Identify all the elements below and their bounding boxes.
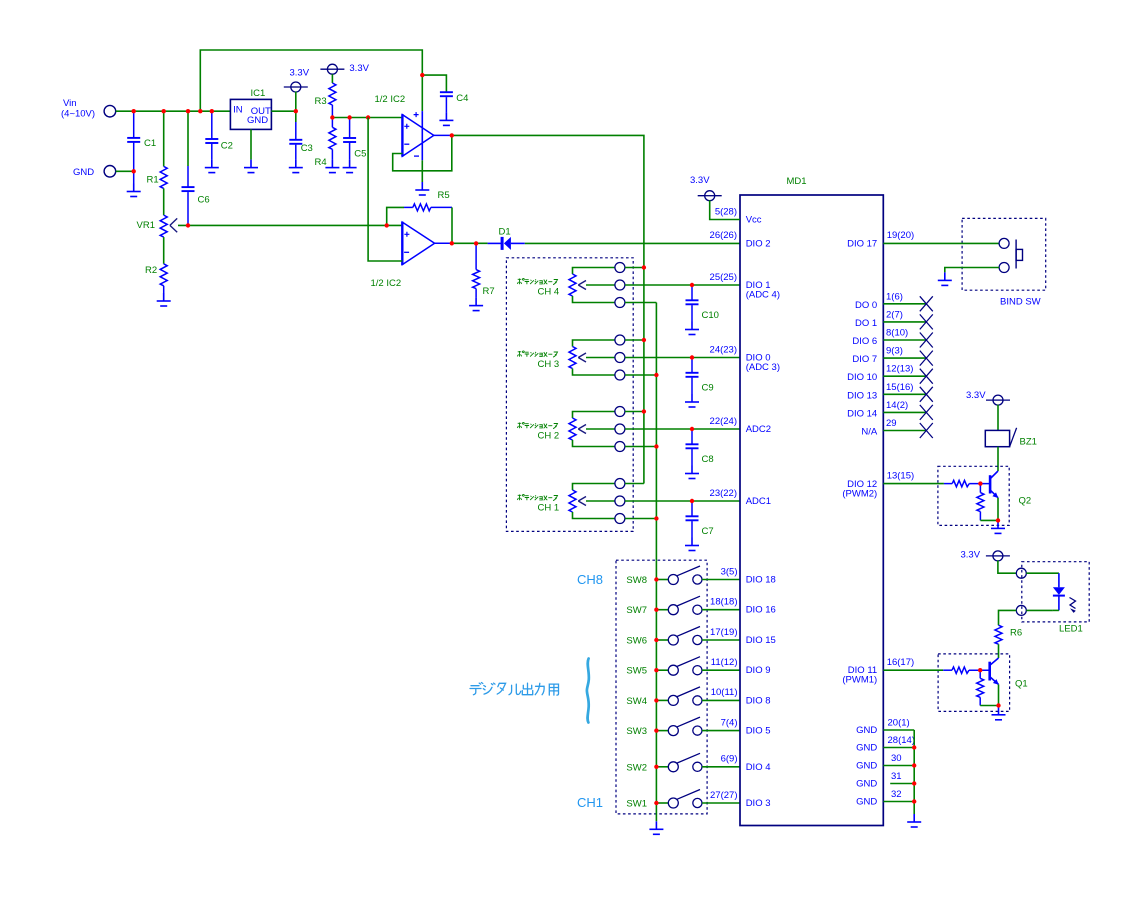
svg-text:(PWM2): (PWM2) [842,489,877,500]
wire LED1 cathode [1026,609,1053,611]
pin GND 31 [856,771,914,790]
wire VR1 to R2 [163,237,165,264]
wire VR1 wiper to op-amp [178,224,402,226]
wire Vcc pin [710,200,740,219]
svg-text:GND: GND [247,115,268,126]
buzzer BZ1 [985,430,1009,446]
pin 14(2) DIO 14 no-connect [847,400,933,420]
LED1 emission arrow [1070,598,1076,609]
ground below R7 [469,298,483,311]
svg-text:Vcc: Vcc [746,215,762,226]
ground below Q2 [997,519,999,522]
resistor R7 [475,243,477,269]
svg-text:DIO 16: DIO 16 [746,605,776,616]
svg-text:R2: R2 [145,265,157,276]
svg-text:CH1: CH1 [577,795,603,810]
power symbol 3.3V at MD1 Vcc [698,191,722,201]
svg-text:Q2: Q2 [1019,496,1032,507]
capacitor C8 [685,429,714,479]
svg-text:IN: IN [233,104,243,115]
pin 27(27) DIO 3 [710,790,770,809]
svg-text:LED1: LED1 [1059,624,1083,635]
Q1 dashed box [938,654,1010,712]
svg-text:CH 3: CH 3 [538,359,560,370]
wire divider node to op-amp2 inverting input [368,118,402,262]
svg-text:BIND SW: BIND SW [1000,297,1041,308]
capacitor C4 [440,92,453,97]
ground below IC1 [244,160,258,173]
svg-text:SW1: SW1 [626,799,647,810]
wire GND terminal to C1 [116,170,134,172]
switch SW3 [626,717,740,737]
svg-text:15(16): 15(16) [886,382,913,393]
pin 2(7) DO 1 no-connect [855,309,933,329]
svg-text:C5: C5 [354,148,366,159]
svg-text:1/2 IC2: 1/2 IC2 [371,278,402,289]
LED1 dashed box [1022,562,1089,622]
LED LED1 [1058,573,1060,587]
svg-text:DIO 13: DIO 13 [847,390,877,401]
svg-text:CH 4: CH 4 [538,287,560,298]
svg-text:DIO 4: DIO 4 [746,762,771,773]
potentiometer CH3 [517,335,740,380]
op-amp U2B (1/2 IC2 bottom) [402,222,452,265]
svg-text:C4: C4 [456,93,468,104]
resistor R6 [995,625,1002,644]
potentiometer VR1 [160,215,167,237]
capacitor C3 [295,111,297,122]
capacitor C2 [211,111,213,139]
svg-text:(PWM1): (PWM1) [842,675,877,686]
ground below C1 [133,171,135,183]
svg-text:DO 1: DO 1 [855,318,877,329]
switch SW6 [626,627,740,647]
potentiometer CH1 [517,479,740,524]
svg-text:1(6): 1(6) [886,291,903,302]
switch SW5 [626,657,740,677]
pin GND 20(1) [856,717,914,736]
svg-text:3.3V: 3.3V [290,68,310,79]
wire op-amp2 feedback left [387,207,404,225]
svg-text:9(3): 9(3) [886,346,903,357]
svg-text:DIO 17: DIO 17 [847,239,877,250]
wire ground bus from CH4 bottom [655,303,657,561]
svg-text:29: 29 [886,418,897,429]
wire R6 to Q1 collector [998,644,1000,658]
svg-text:GND: GND [856,743,877,754]
switch SW8 [626,566,740,586]
pin 13(15) DIO 12 PWM2 [842,470,914,499]
svg-text:DIO 15: DIO 15 [746,635,776,646]
resistor Q1 pulldown [979,670,981,678]
transistor Q1 [990,658,999,684]
svg-text:3(5): 3(5) [721,566,738,577]
wire LED1 anode [1026,572,1059,574]
switch SW1 [626,790,740,810]
svg-text:ADC1: ADC1 [746,496,771,507]
svg-text:R3: R3 [315,96,327,107]
wire BZ1 to Q2 collector [997,447,999,471]
svg-text:GND: GND [856,797,877,808]
svg-text:DIO 2: DIO 2 [746,238,771,249]
power symbol 3.3V at IC1 OUT [284,82,308,92]
svg-text:(4~10V): (4~10V) [61,108,95,119]
ground below BIND SW [938,272,952,285]
svg-text:(ADC 4): (ADC 4) [746,290,780,301]
pin GND 32 [856,789,914,808]
svg-text:C3: C3 [301,143,313,154]
label digital output (hand-drawn kanji) [470,683,559,696]
svg-text:Vin: Vin [63,98,77,109]
svg-text:ADC2: ADC2 [746,424,771,435]
svg-text:5(28): 5(28) [715,206,737,217]
svg-text:24(23): 24(23) [710,344,737,355]
wire DIO 11 to Q1 base resistor [883,669,943,671]
ground below C2 [205,160,219,173]
svg-text:N/A: N/A [861,427,878,438]
svg-text:19(20): 19(20) [887,230,914,241]
svg-text:32: 32 [891,789,902,800]
ground below C3 [289,160,303,173]
svg-text:16(17): 16(17) [887,657,914,668]
svg-text:C2: C2 [221,141,233,152]
resistor Q1 base [943,669,952,671]
pin 6(9) DIO 4 [721,754,771,773]
ground below C4 [439,112,453,125]
wire DIO 17 to BIND SW [883,242,999,244]
wire 3.3V to BZ1 [997,405,999,431]
svg-text:14(2): 14(2) [886,400,908,411]
svg-text:SW3: SW3 [626,726,647,737]
svg-text:6(9): 6(9) [721,754,738,765]
pin 25(25) DIO 1 [710,272,780,301]
svg-text:DIO 7: DIO 7 [852,354,877,365]
svg-text:10(11): 10(11) [711,687,738,698]
svg-text:DIO 6: DIO 6 [852,336,877,347]
pin 5(28) Vcc [715,206,762,225]
svg-text:C8: C8 [702,454,714,465]
svg-text:Q1: Q1 [1015,679,1028,690]
pin 15(16) DIO 13 no-connect [847,382,933,402]
svg-text:CH8: CH8 [577,572,603,587]
pin 9(3) DIO 7 no-connect [852,346,932,366]
diode D1 [488,242,501,244]
pin 19(20) DIO 17 [847,230,914,249]
svg-text:DIO 10: DIO 10 [847,372,877,383]
pin 24(23) DIO 0 [710,344,780,373]
ground below Q1 [998,706,1000,707]
wire D1 to MD1 DIO2 [525,242,740,244]
svg-text:3.3V: 3.3V [961,550,981,561]
pin 11(12) DIO 9 [711,657,771,676]
node Vin terminal [104,105,116,117]
svg-text:SW6: SW6 [626,636,647,647]
svg-text:VR1: VR1 [137,220,155,231]
svg-text:R4: R4 [315,157,327,168]
svg-text:SW4: SW4 [626,696,647,707]
switch SW7 [626,596,740,616]
pin 23(22) ADC1 [710,488,772,507]
ground below GND chain [907,814,921,827]
junction dots Q2 [978,481,1000,522]
svg-text:28(14): 28(14) [888,735,915,746]
svg-text:22(24): 22(24) [710,416,737,427]
wire op-amp1 power to ground [421,160,423,182]
node GND terminal [104,166,116,178]
svg-text:17(19): 17(19) [710,627,737,638]
svg-text:DIO 5: DIO 5 [746,726,771,737]
wire op-amp2 output [452,242,488,244]
svg-text:R5: R5 [438,190,450,201]
svg-text:C7: C7 [702,526,714,537]
transistor Q2 [990,471,998,498]
svg-text:26(26): 26(26) [710,230,737,241]
capacitor C7 [685,501,714,551]
switch block dashed box [616,560,707,814]
resistor R3 [329,83,336,105]
regulator IC1 [230,99,271,129]
pin GND 28(14) [856,735,915,754]
svg-text:GND: GND [856,725,877,736]
svg-text:DO 0: DO 0 [855,300,877,311]
svg-text:3.3V: 3.3V [690,175,710,186]
wire Q2 emitter down [997,498,999,521]
wire switch ground bus [655,560,657,821]
wire Q1 emitter down [998,684,1000,705]
potentiometer CH2 [517,407,740,452]
svg-text:11(12): 11(12) [711,657,738,668]
wire Q1 pulldown to emitter [980,705,998,707]
LED1 terminal 1 [1016,568,1026,578]
svg-text:C9: C9 [702,383,714,394]
wire IC1 OUT [271,110,295,112]
pin 12(13) DIO 10 no-connect [847,364,933,384]
resistor Q2 base [944,483,952,485]
pin 29 N/A no-connect [861,418,932,438]
switch SW4 [626,687,740,707]
svg-text:2(7): 2(7) [886,309,903,320]
wire op-amp1 output to pot bus [452,135,644,267]
wire op-amp2 feedback right [451,207,453,243]
svg-text:SW2: SW2 [626,762,647,773]
svg-text:IC1: IC1 [251,88,266,99]
capacitor C6 [187,111,189,166]
junction dots op-amp section [385,73,479,246]
wire Vin rail [116,110,231,112]
svg-text:C10: C10 [702,310,719,321]
ground below switch bus [649,821,663,834]
op-amp U2A (1/2 IC2 top) [402,111,451,160]
svg-text:25(25): 25(25) [710,272,737,283]
resistor R1 [163,111,165,166]
svg-text:23(22): 23(22) [710,488,737,499]
pin 26(26) DIO 2 [710,230,771,249]
wire R1 to VR1 [163,188,165,215]
resistor R2 [160,264,167,286]
potentiometer block dashed box [506,258,633,532]
svg-text:D1: D1 [499,227,511,238]
capacitor C9 [685,358,714,408]
svg-text:R7: R7 [483,286,495,297]
wire op-amp1 feedback [393,135,452,170]
wire GND chain vertical [913,730,915,814]
capacitor C5 [349,118,351,139]
switch BIND SW pushbutton symbol [1016,240,1022,269]
wire DIO 12 to Q2 base resistor [883,483,944,485]
svg-text:C1: C1 [144,138,156,149]
wire LED1 terminal2 to R6 [999,610,1017,625]
svg-text:DIO 14: DIO 14 [847,408,877,419]
junction dots Q1 [978,668,1001,708]
svg-text:CH 1: CH 1 [538,503,560,514]
pin 18(18) DIO 16 [710,597,776,616]
junction dots pot section [642,265,695,520]
wire BIND SW to ground [945,268,999,273]
svg-text:DIO 18: DIO 18 [746,575,776,586]
svg-text:DIO 9: DIO 9 [746,665,771,676]
svg-text:MD1: MD1 [787,176,807,187]
svg-text:27(27): 27(27) [710,790,737,801]
switch SW2 [626,753,740,773]
svg-text:3.3V: 3.3V [349,63,369,74]
svg-text:7(4): 7(4) [721,717,738,728]
svg-text:12(13): 12(13) [886,364,913,375]
svg-text:13(15): 13(15) [887,470,914,481]
svg-text:SW7: SW7 [626,605,647,616]
pin 16(17) DIO 11 PWM1 [842,657,914,686]
svg-text:SW5: SW5 [626,666,647,677]
ground below R4 [325,160,339,173]
resistor R4 [331,118,333,128]
wire Q2 pulldown to emitter [980,519,998,521]
ground below C5 [343,160,357,173]
svg-text:CH 2: CH 2 [538,431,560,442]
svg-text:GND: GND [856,779,877,790]
wire top power loop [200,50,422,111]
wire 3.3V rail branch to C4 [422,75,446,92]
junction dots GND chain [912,745,916,803]
svg-text:(ADC 3): (ADC 3) [746,362,780,373]
brace annotation [587,659,589,723]
node bus A (pot top feed) [643,268,645,484]
pin 7(4) DIO 5 [721,717,771,736]
resistor R5 [404,206,413,208]
svg-text:GND: GND [73,167,94,178]
svg-text:18(18): 18(18) [710,597,737,608]
pin 17(19) DIO 15 [710,627,776,646]
power symbol 3.3V at BZ1 [986,395,1010,405]
pin 1(6) DO 0 no-connect [855,291,933,311]
ground below R2 [163,286,165,301]
ground below op-amp1 [415,182,429,195]
resistor Q2 pulldown [979,484,981,493]
wire IC1 GND pin [250,129,252,159]
svg-text:DIO 3: DIO 3 [746,798,771,809]
svg-text:R6: R6 [1010,628,1022,639]
wire divider node [332,117,402,119]
LED1 terminal 2 [1016,605,1026,615]
svg-text:20(1): 20(1) [888,717,910,728]
pin 22(24) ADC2 [710,416,772,435]
potentiometer CH4 [517,263,740,308]
svg-text:SW8: SW8 [626,575,647,586]
power symbol 3.3V at R3 [320,64,344,74]
capacitor C1 [133,111,135,138]
svg-text:8(10): 8(10) [886,328,908,339]
svg-text:BZ1: BZ1 [1020,437,1037,448]
BIND SW dashed box [962,218,1046,290]
svg-text:30: 30 [891,753,902,764]
svg-text:31: 31 [891,771,902,782]
svg-text:3.3V: 3.3V [966,390,986,401]
svg-text:C6: C6 [198,195,210,206]
wire 3.3V to LED1 terminal [998,560,1016,573]
svg-text:GND: GND [856,761,877,772]
svg-text:DIO 8: DIO 8 [746,695,771,706]
pin GND 30 [856,753,914,772]
svg-text:R1: R1 [147,175,159,186]
switch BIND SW terminal 1 [999,238,1009,248]
pin 3(5) DIO 18 [721,566,776,585]
pin 8(10) DIO 6 no-connect [852,328,932,348]
switch BIND SW terminal 2 [999,263,1009,273]
module MD1 box [740,195,883,826]
power symbol 3.3V at LED1 [986,551,1010,561]
pin 10(11) DIO 8 [711,687,771,706]
Q2 dashed box [938,466,1009,525]
capacitor C10 [685,285,719,335]
svg-text:1/2 IC2: 1/2 IC2 [375,94,406,105]
junction dots input section [132,109,371,228]
